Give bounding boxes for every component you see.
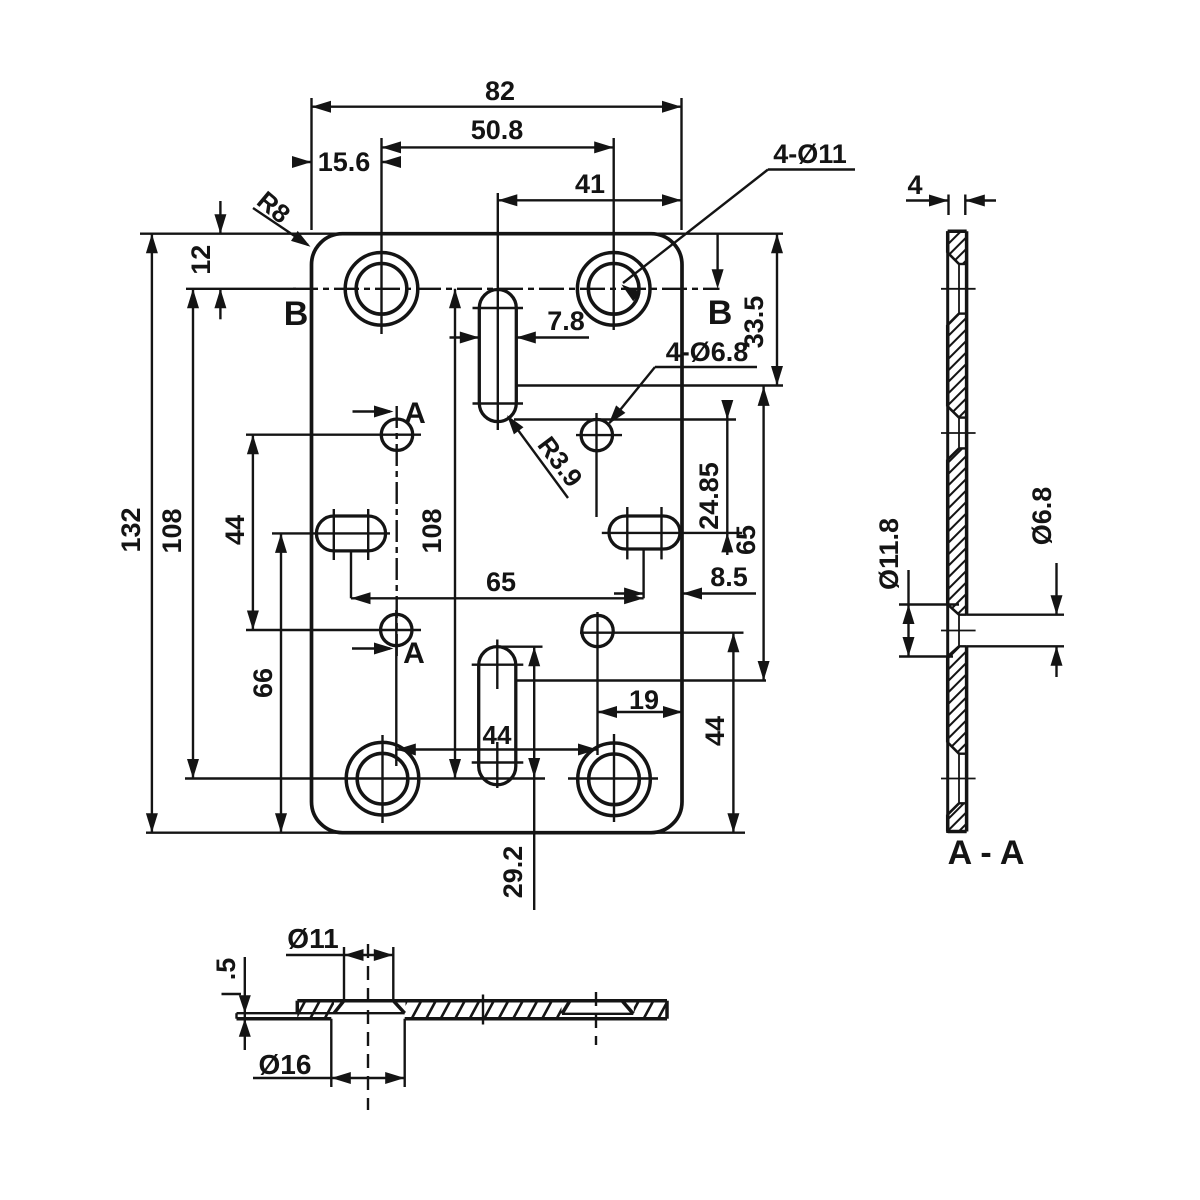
arrow 7.8 left <box>460 332 480 344</box>
dim line O11 <box>286 954 393 956</box>
arrow O16 right <box>385 1072 405 1084</box>
svg-text:Ø11: Ø11 <box>287 923 338 954</box>
centerline bottom view left hole <box>367 944 369 1110</box>
svg-text:4-Ø6.8: 4-Ø6.8 <box>666 337 749 367</box>
section bottom edge <box>948 830 967 834</box>
countersink slant lower <box>948 803 959 814</box>
svg-text:12: 12 <box>186 245 216 275</box>
svg-text:132: 132 <box>116 507 146 552</box>
arrow 24.85 bottom <box>721 533 733 553</box>
svg-text:A: A <box>404 397 426 430</box>
dim 8.5 right tail <box>683 592 757 594</box>
top slot 7.8 x R3.9 <box>479 290 516 422</box>
svg-text:.5: .5 <box>211 958 241 981</box>
centerline small hole BR column <box>596 612 598 755</box>
dim O6.8 lower tail <box>1055 646 1057 677</box>
section right edge lower <box>965 646 969 831</box>
arrow 82 right <box>662 101 682 113</box>
arrow 50.8 left <box>382 141 402 153</box>
hole O11 hole TR <box>588 264 639 315</box>
ext 44R top / small hole BR tick <box>580 632 744 634</box>
bottom view left end upper <box>296 1001 300 1014</box>
left slot arc tick L <box>333 509 335 560</box>
ext 82 left <box>310 98 312 230</box>
ext O11 left <box>343 947 345 1001</box>
ext 24.85 top (slot bottom) <box>514 418 736 420</box>
left slot centerline / ext 66 <box>272 532 390 534</box>
arrow 50.8 right <box>594 141 614 153</box>
dim line 24.85 <box>726 400 728 555</box>
svg-text:A - A: A - A <box>948 834 1025 872</box>
arrow 66 top <box>275 533 287 553</box>
bottom slot <box>479 647 516 785</box>
arrow 44L top <box>247 435 259 455</box>
centerline bottom hole row right <box>568 777 658 779</box>
bottom slot centerline upper <box>496 640 498 690</box>
arrow 29.2 bottom <box>528 758 540 778</box>
arrow 108L top <box>187 289 199 309</box>
arrow 65R top <box>758 386 770 406</box>
section left edge bottom segment <box>946 815 950 832</box>
right hole slant R <box>622 1001 633 1014</box>
dim 4 right tail <box>965 199 996 201</box>
arrowhead R8 <box>291 231 311 247</box>
hole upper edge <box>959 753 967 755</box>
arrow 44L bottom <box>247 611 259 631</box>
arrow O11 left <box>344 949 364 961</box>
arrow 12 bottom <box>214 289 226 309</box>
svg-text:A: A <box>403 637 425 670</box>
ext O11.8 top <box>899 603 959 605</box>
right slot arc tick R <box>660 507 662 559</box>
ext left slot center to 65 dim <box>350 551 352 598</box>
top slot centerline / ext for 41 <box>497 193 499 430</box>
small hole bottom-right <box>582 615 613 646</box>
arrow O11.8 top <box>903 605 915 625</box>
dim line 44 left <box>252 435 254 630</box>
arrow 15.6 right <box>382 156 402 168</box>
left slot arc tick R <box>367 509 369 560</box>
section top edge <box>948 229 967 233</box>
dim line 108 left <box>192 289 194 779</box>
underline 4-O6.8 <box>655 366 757 368</box>
ext O11 right <box>392 947 394 1001</box>
arrow .5 bottom <box>239 1019 251 1037</box>
centerline vertical hole BL <box>381 735 383 823</box>
dim line 41 <box>498 199 682 201</box>
dim line 19 <box>598 711 683 713</box>
section left edge segment <box>946 325 950 407</box>
section hole centerline tick <box>941 288 976 290</box>
centerline bottom hole row left <box>185 777 545 779</box>
arrow 65M right <box>624 592 644 604</box>
center tick small hole TR horizontal <box>576 434 622 436</box>
svg-text:15.6: 15.6 <box>318 147 371 177</box>
counterbore O16 hole BL <box>346 742 419 815</box>
section arrow line A top <box>353 410 391 412</box>
arrow onto B row right <box>712 269 724 289</box>
arrow 65M left <box>351 592 371 604</box>
svg-text:19: 19 <box>629 685 659 715</box>
arrow 82 left <box>312 101 332 113</box>
countersink slant lower <box>948 646 959 656</box>
centerline small hole TR to slot <box>595 413 597 517</box>
ext O6.8 bottom <box>967 645 1064 647</box>
arrow O11.8 bottom <box>903 637 915 657</box>
arrow 15.6 left <box>292 156 312 168</box>
svg-text:65: 65 <box>486 567 516 597</box>
leader 4-O11 <box>623 170 768 284</box>
dim 7.8 right tail <box>516 336 589 338</box>
section hole centerline tick <box>941 778 976 780</box>
centerline small hole BL column <box>395 610 397 766</box>
hole O11 hole BR <box>589 754 640 805</box>
arrow 44mid left <box>396 744 416 756</box>
ext 29.2 top <box>498 646 543 648</box>
countersink slant upper <box>948 406 959 417</box>
svg-text:44: 44 <box>483 720 512 750</box>
section right edge upper <box>965 231 969 615</box>
ext line plate top edge full <box>140 232 783 234</box>
section arrowhead A bottom <box>374 643 394 655</box>
svg-text:44: 44 <box>700 716 730 746</box>
hole O11 hole TL <box>356 264 407 315</box>
arrowhead R3.9 <box>507 415 524 434</box>
right slot <box>609 516 680 549</box>
arrow 24.85 top <box>721 400 733 420</box>
arrow 29.2 top <box>528 647 540 667</box>
arrow O6.8 bottom <box>1051 646 1063 666</box>
dim line 15.6 right tail <box>382 161 400 163</box>
arrow 132 bottom <box>146 813 158 833</box>
bottom view bottom edge right <box>405 1017 667 1021</box>
section line A-A <box>396 406 398 659</box>
dim line 44 right <box>732 633 734 833</box>
countersink inner vertical <box>958 418 960 449</box>
dim line 33.5 <box>776 234 778 386</box>
svg-text:4-Ø11: 4-Ø11 <box>773 139 847 169</box>
arrow 8.5 left <box>624 588 644 600</box>
dim line .5 <box>244 957 246 1050</box>
centerline bottom view right hole <box>595 992 597 1045</box>
dim line 65 middle <box>351 597 644 599</box>
leader R3.9 <box>508 417 568 499</box>
section hole centerline tick <box>941 432 976 434</box>
inner line / lip top <box>237 1012 405 1014</box>
ext O11.8 bottom <box>899 655 953 657</box>
dim line 66 <box>280 533 282 832</box>
ext+centerline vertical hole TR <box>613 138 615 330</box>
ext O6.8 top <box>967 614 1064 616</box>
countersink slant lower <box>948 314 959 325</box>
section hole centerline tick <box>941 630 976 632</box>
arrow 41 right <box>662 194 682 206</box>
dim line O11.8 <box>907 570 909 657</box>
arrowhead 4-O11 <box>622 285 641 302</box>
inner line right hole <box>562 1013 633 1015</box>
hole lower edge <box>959 645 967 647</box>
dim line 132 <box>151 234 153 833</box>
countersink inner vertical <box>958 264 960 314</box>
dim line 65 right <box>762 386 764 680</box>
hole upper edge <box>959 416 967 418</box>
ext O16 left <box>330 1019 332 1087</box>
arrow 12 top <box>214 214 226 234</box>
ext line plate bottom edge full <box>146 832 745 834</box>
svg-text:B: B <box>284 295 309 333</box>
dim line 108 middle <box>454 289 456 779</box>
section left edge segment <box>946 460 950 605</box>
small hole A-bottom <box>381 614 412 645</box>
dim 7.8 left tail <box>450 336 480 338</box>
section arrowhead A top <box>374 406 394 418</box>
bottom view right end <box>665 1001 669 1019</box>
arrow 65R bottom <box>758 661 770 681</box>
line top edge to B row right <box>716 234 718 272</box>
arrow O6.8 top <box>1051 595 1063 615</box>
counterbore O16 hole BR <box>578 743 651 816</box>
arrow O11 right <box>374 949 394 961</box>
section A-A hatching <box>328 222 1200 842</box>
center tick bottom view <box>482 995 484 1025</box>
svg-text:4: 4 <box>907 170 922 200</box>
svg-text:Ø11.8: Ø11.8 <box>874 518 904 590</box>
svg-text:B: B <box>708 294 733 332</box>
section arrow line A bottom <box>352 647 390 649</box>
dim 8.5 left tail <box>614 592 644 594</box>
svg-text:44: 44 <box>220 515 250 545</box>
bottom view bottom edge left <box>237 1017 332 1021</box>
hole lower edge <box>959 802 967 804</box>
dim line 44 middle <box>396 748 597 750</box>
left hole slant L <box>334 1001 344 1014</box>
svg-text:108: 108 <box>157 508 187 553</box>
section left edge segment <box>946 657 950 743</box>
arrow 108M bottom <box>449 759 461 779</box>
ext 108L top <box>186 288 296 290</box>
ext 44L bottom / small hole tick <box>246 629 421 631</box>
small hole top-right <box>581 419 612 450</box>
dim O6.8 upper tail <box>1055 563 1057 615</box>
bottom slot centerline lower <box>496 742 498 788</box>
ext 44L top / small hole tick <box>246 434 421 436</box>
arrow 4 left <box>929 195 949 207</box>
arrow 108M top <box>449 289 461 309</box>
svg-text:41: 41 <box>575 169 605 199</box>
right slot centerline / ext 24.85 <box>602 532 742 534</box>
arrow 132 top <box>146 234 158 254</box>
right hole slant L <box>562 1001 570 1014</box>
svg-text:65: 65 <box>731 525 761 555</box>
hole lower edge <box>959 312 967 314</box>
section A-A outline <box>948 231 967 831</box>
svg-text:8.5: 8.5 <box>710 562 748 592</box>
ext line 65R bottom <box>516 679 766 681</box>
countersink inner vertical <box>958 754 960 804</box>
bottom view top edge <box>297 999 667 1003</box>
right slot arc tick L <box>626 507 628 559</box>
svg-text:Ø16: Ø16 <box>259 1049 312 1080</box>
ext line 33.5 bottom / 65R top <box>516 384 783 386</box>
leader 4-O6.8 <box>610 367 656 423</box>
counterbore O16 hole TL <box>345 252 418 325</box>
arrow 44R bottom <box>727 813 739 833</box>
underline 4-O11 <box>768 168 855 170</box>
countersink slant upper <box>948 742 959 753</box>
arrow 44R top <box>727 633 739 653</box>
hole O11 hole BL <box>357 753 408 804</box>
ext right slot center to 65 dim <box>642 549 644 598</box>
small hole A-top <box>381 419 412 450</box>
bottom slot lower arc tick <box>472 761 524 763</box>
arrow O16 left <box>331 1072 351 1084</box>
dim line O16 <box>253 1077 405 1079</box>
svg-text:24.85: 24.85 <box>694 462 724 530</box>
svg-text:Ø6.8: Ø6.8 <box>1027 487 1057 546</box>
svg-text:29.2: 29.2 <box>498 846 528 899</box>
arrow 19 left <box>598 706 618 718</box>
bottom slot upper arc tick <box>472 664 524 666</box>
counterbore O16 hole TR <box>577 252 650 325</box>
svg-text:82: 82 <box>485 76 515 106</box>
tick .5 <box>222 993 242 995</box>
dim 4 left tail <box>906 199 949 201</box>
svg-text:108: 108 <box>417 508 447 553</box>
hole upper edge <box>959 263 967 265</box>
ext 82/41 right <box>680 98 682 230</box>
leader R8 <box>253 208 308 245</box>
section left edge segment <box>946 231 950 253</box>
ext 4 right <box>964 195 966 216</box>
centerline vertical hole BR <box>613 734 615 822</box>
dim 12 top tail <box>219 201 221 234</box>
dim line 15.6 left tail <box>292 161 312 163</box>
arrow 108L bottom <box>187 759 199 779</box>
dim line 50.8 <box>382 146 614 148</box>
arrow 7.8 right <box>516 332 536 344</box>
left hole slant R <box>393 1001 404 1014</box>
top slot upper arc tick <box>473 307 524 309</box>
svg-text:66: 66 <box>248 668 278 698</box>
svg-text:7.8: 7.8 <box>547 306 585 336</box>
countersink inner vertical <box>958 615 960 647</box>
hole upper edge <box>959 614 967 616</box>
ext O16 right <box>404 1019 406 1087</box>
arrow .5 top <box>239 995 251 1013</box>
ext 4 left <box>947 195 949 216</box>
arrow 41 left <box>498 194 518 206</box>
svg-text:50.8: 50.8 <box>471 115 524 145</box>
arrow 33.5 top <box>771 234 783 254</box>
countersink slant upper <box>948 605 959 615</box>
countersink slant lower <box>948 448 959 459</box>
arrow 8.5 right <box>683 588 703 600</box>
plate outline (82 x 132, R8 corners) <box>312 234 683 833</box>
arrow 33.5 bottom <box>771 366 783 386</box>
top slot lower arc tick <box>473 402 524 404</box>
dim line 82 <box>312 105 682 107</box>
arrowhead 4-O6.8 <box>609 405 626 424</box>
hole lower edge <box>959 447 967 449</box>
arrow 19 right <box>663 706 683 718</box>
ext+centerline vertical hole TL <box>380 138 382 334</box>
arrow 66 bottom <box>275 813 287 833</box>
dim 12 bottom tail <box>219 289 221 320</box>
lip left cap <box>235 1013 237 1019</box>
centerline B-B row <box>293 288 720 290</box>
dim line 29.2 <box>533 647 535 910</box>
left slot <box>316 516 385 551</box>
arrow 44mid right <box>578 744 598 756</box>
countersink slant upper <box>948 253 959 264</box>
arrow 4 right <box>965 195 985 207</box>
